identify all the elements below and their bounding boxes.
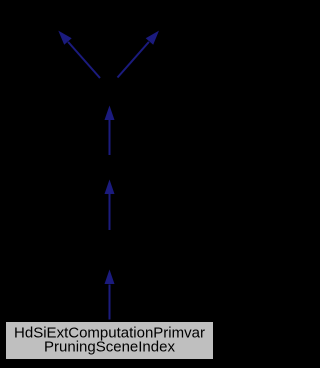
class node HdSiExtComputationPrimvarPruningSceneIndex [6,322,214,360]
wire [109,194,111,230]
svg-text:PruningSceneIndex: PruningSceneIndex [44,338,175,355]
wire [68,42,100,78]
inheritance arrow 1 (upper vertical) [105,106,115,156]
inheritance arrow 2 (middle vertical) [105,180,115,231]
inheritance arrow to top-left base class [58,31,100,78]
inheritance arrow to top-right base class [118,31,160,78]
inheritance arrow 3 (lower vertical) [105,270,115,320]
wire [109,120,111,156]
wire [109,285,111,320]
wire [118,42,149,78]
